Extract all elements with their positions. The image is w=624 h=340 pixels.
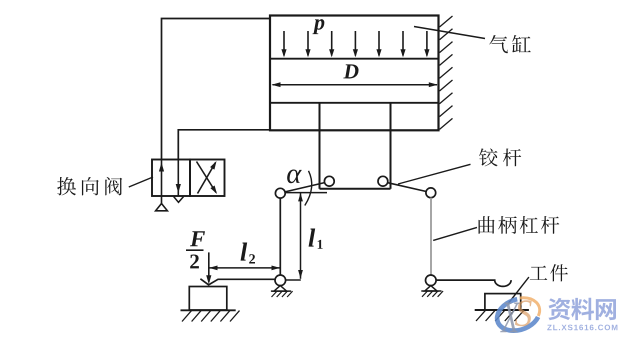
label l1 [309, 229, 316, 247]
valve left box: straight flow path with up arrow [161, 160, 163, 205]
left crank top joint circle [275, 188, 285, 198]
pointer line to 铰杆 label [398, 164, 471, 184]
watermark 资料网 [548, 298, 570, 320]
dimension line l1 vertical [300, 193, 302, 279]
right fixed pivot circle [426, 275, 437, 286]
valve right box: crossed arrows X [198, 163, 216, 194]
pointer line to 换向阀 label [129, 177, 153, 187]
label D (bore diameter) [343, 64, 358, 78]
right pivot ground line [421, 290, 441, 292]
left ground line [181, 309, 236, 311]
pressure arrows (7x) [283, 31, 285, 56]
directional valve right position box [190, 160, 225, 197]
right ground line [475, 309, 529, 311]
pointer line to 工件 label [508, 277, 529, 304]
force F/2 arrow [208, 252, 210, 282]
left workpiece block [189, 287, 227, 311]
right crank vertical link (light) [430, 198, 432, 275]
watermark letter S [515, 300, 532, 326]
right hinge pin on ram [378, 176, 388, 186]
label 换向阀 (directional valve) [57, 177, 76, 195]
left fixed pivot circle [275, 275, 286, 286]
watermark logo ellipse swoosh [493, 293, 544, 336]
right toggle link [388, 183, 427, 192]
label alpha [287, 169, 302, 183]
l1 bottom extension line from pivot [286, 279, 301, 281]
cylinder body 气缸 outline [270, 16, 439, 131]
piston ram block [319, 103, 321, 189]
dimension line D [273, 84, 438, 86]
fixed wall hatching right of cylinder [440, 16, 453, 27]
left pivot hatches [272, 291, 278, 297]
left hinge pin on ram [324, 176, 334, 186]
right crank horizontal arm with pressing foot arc [436, 280, 511, 286]
pressure source triangle under valve [156, 204, 168, 211]
pointer line to 气缸 label [414, 27, 485, 39]
right pivot support triangle [425, 286, 437, 291]
right crank top joint circle [426, 188, 436, 198]
label 气缸 (cylinder) [489, 35, 508, 53]
pipe from valve port B to cylinder bottom [178, 130, 270, 160]
label 曲柄杠杆 (bell-crank lever) [479, 216, 495, 234]
directional valve 换向阀 left position box [152, 160, 190, 197]
valve left box: down-arrow path to exhaust [177, 160, 179, 197]
label 工件 (workpiece) [530, 266, 547, 280]
label F over 2 [190, 231, 205, 246]
left toggle link 铰杆 [285, 183, 325, 192]
exhaust vent V under valve [174, 197, 184, 203]
angle alpha arc [305, 171, 312, 206]
pipe from valve port A to cylinder top [162, 19, 271, 161]
label l2 [241, 243, 248, 261]
left ground hatches [182, 311, 192, 322]
watermark letter X [500, 303, 520, 333]
left pivot ground line [271, 290, 291, 292]
left pivot support triangle [274, 286, 287, 292]
cylinder internal line below pressure arrows [270, 58, 439, 60]
watermark url ZL.XS1616.COM [547, 325, 617, 331]
dimension line l2 horizontal [209, 267, 280, 269]
left crank horizontal arm with pressing tip [200, 279, 275, 285]
cylinder internal line piston top [270, 102, 439, 104]
right workpiece block [485, 294, 521, 310]
right ground hatches [476, 310, 486, 321]
label 铰杆 (toggle link) [479, 148, 498, 166]
left crank vertical arm [279, 198, 281, 275]
label p (pressure) [312, 19, 324, 34]
right pivot hatches [422, 291, 428, 297]
angle alpha reference horizontal line [285, 192, 327, 194]
pointer line to 曲柄杠杆 label [433, 227, 477, 240]
